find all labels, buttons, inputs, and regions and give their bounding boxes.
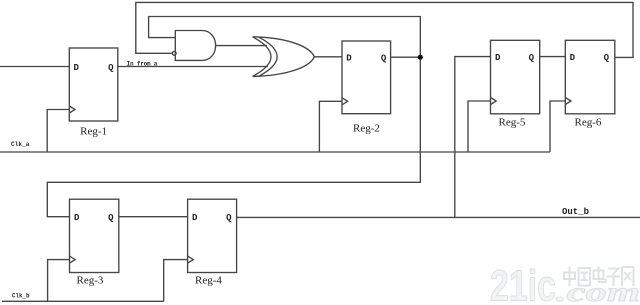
svg-text:Q: Q bbox=[108, 213, 114, 223]
svg-text:Q: Q bbox=[604, 53, 610, 63]
svg-text:Reg-6: Reg-6 bbox=[575, 117, 602, 129]
svg-text:Q: Q bbox=[529, 53, 535, 63]
svg-text:D: D bbox=[346, 54, 352, 64]
svg-text:Reg-1: Reg-1 bbox=[80, 125, 107, 137]
svg-text:Reg-2: Reg-2 bbox=[353, 123, 380, 135]
svg-text:21ic: 21ic bbox=[490, 262, 556, 305]
svg-text:D: D bbox=[74, 213, 80, 223]
svg-text:Out_b: Out_b bbox=[562, 206, 589, 217]
svg-text:D: D bbox=[74, 63, 80, 73]
svg-text:Q: Q bbox=[226, 213, 232, 223]
svg-text:In_from_a: In_from_a bbox=[127, 61, 158, 68]
svg-text:D: D bbox=[495, 53, 501, 63]
svg-text:Q: Q bbox=[381, 54, 387, 64]
svg-text:Reg-3: Reg-3 bbox=[77, 274, 104, 286]
svg-text:Clk_a: Clk_a bbox=[11, 141, 30, 148]
svg-text:Clk_b: Clk_b bbox=[12, 293, 30, 300]
svg-text:Q: Q bbox=[108, 63, 114, 73]
svg-text:D: D bbox=[192, 213, 198, 223]
svg-text:Reg-4: Reg-4 bbox=[195, 274, 222, 286]
svg-text:D: D bbox=[570, 53, 576, 63]
svg-text:Reg-5: Reg-5 bbox=[499, 117, 526, 129]
